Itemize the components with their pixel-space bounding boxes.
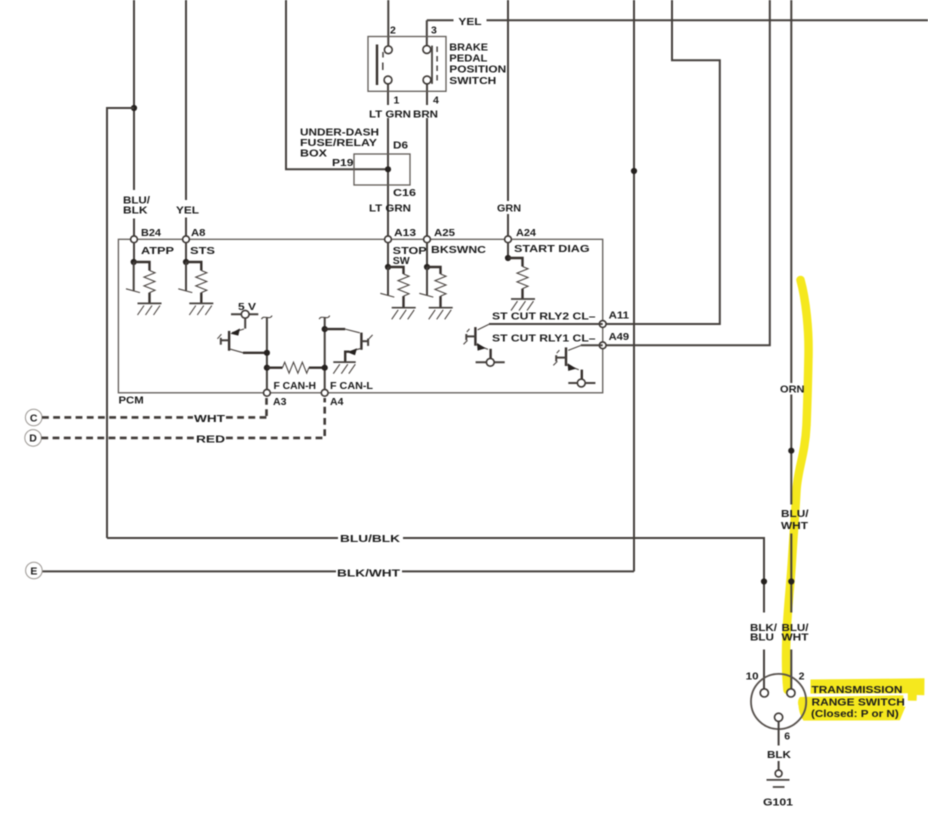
wire BLK from pin 6 (778, 721, 780, 770)
transmission range switch circle (751, 674, 806, 729)
svg-text:YEL: YEL (176, 205, 200, 217)
dashed wire WHT from C to A3 (42, 398, 267, 418)
transistor Q4 (ST CUT RLY1 driver) (553, 346, 582, 380)
junction in under-dash box (385, 166, 391, 172)
wire pin3 brake switch from YEL line (426, 20, 428, 45)
wire pin2 brake switch (387, 0, 389, 46)
switch contact stub pin2 (382, 52, 384, 58)
wire A11 to transistor Q3 (489, 323, 603, 325)
break tilde F CAN-L (319, 316, 330, 320)
pin A25 (424, 236, 431, 243)
ground STOP SW (392, 308, 416, 320)
svg-text:C16: C16 (393, 187, 416, 199)
transistor Q2 (CAN driver low) (325, 329, 373, 362)
switch closed contact right (431, 46, 433, 84)
pin A4 (321, 389, 328, 396)
pin A24 (505, 236, 512, 243)
pin 1 terminal (384, 76, 392, 84)
svg-text:BRN: BRN (413, 109, 438, 121)
svg-text:BLK: BLK (767, 749, 791, 761)
switch mechanical link dash right (436, 47, 438, 85)
svg-text:E: E (30, 565, 37, 577)
wire ORN / BLU-WHT vertical (790, 0, 792, 689)
ground terminal Q4 (568, 379, 595, 387)
svg-text:YEL: YEL (458, 16, 482, 28)
svg-text:SW: SW (393, 255, 410, 267)
svg-text:ATPP: ATPP (141, 245, 174, 257)
pin 6 terminal (775, 713, 783, 721)
resistor CAN termination (267, 362, 325, 373)
resistor STS pull (178, 243, 207, 303)
svg-text:ST CUT RLY2 CL–: ST CUT RLY2 CL– (492, 310, 596, 322)
pin 3 terminal (423, 46, 431, 54)
wire pin1 LT GRN down through P19 to A13 (387, 84, 389, 236)
pin 10 terminal (760, 689, 768, 697)
svg-text:BLK: BLK (123, 205, 148, 217)
F CAN-L internal vertical (324, 318, 326, 390)
pin A11 (599, 321, 606, 328)
wire to A49 from top (603, 0, 770, 345)
svg-text:B24: B24 (141, 227, 161, 239)
svg-text:LT GRN: LT GRN (369, 203, 411, 215)
wire to A11 from top (603, 0, 720, 324)
svg-text:C: C (30, 412, 38, 424)
break tilde F CAN-H (262, 316, 273, 320)
svg-text:BLK/WHT: BLK/WHT (337, 567, 401, 579)
junction node CAN-L resistor (322, 365, 328, 371)
svg-text:GRN: GRN (497, 203, 521, 215)
svg-text:(Closed: P or N): (Closed: P or N) (811, 708, 899, 720)
svg-text:BLU: BLU (750, 631, 774, 643)
svg-text:SWITCH: SWITCH (449, 75, 496, 87)
pin 2 terminal (384, 46, 392, 54)
resistor BKSWNC pull (419, 243, 446, 307)
ground STS (189, 303, 213, 315)
ground BKSWNC (429, 308, 453, 320)
junction node CAN-H resistor (264, 365, 270, 371)
dashed wire RED from D to A4 (41, 398, 324, 438)
svg-text:ORN: ORN (780, 384, 805, 396)
pin A13 (385, 236, 392, 243)
switch mechanical link dash left (382, 63, 384, 71)
switch plunger bar (376, 45, 378, 86)
splice node ORN wire (788, 448, 794, 454)
connector E (26, 562, 43, 579)
pin A3 (264, 389, 271, 396)
svg-text:4: 4 (433, 95, 439, 107)
svg-text:WHT: WHT (782, 631, 810, 643)
svg-text:6: 6 (784, 730, 790, 742)
F CAN-H internal vertical (266, 318, 268, 390)
pin 2 terminal (787, 689, 795, 697)
svg-text:2: 2 (799, 670, 805, 682)
svg-text:START DIAG: START DIAG (514, 243, 590, 255)
svg-text:A11: A11 (609, 309, 630, 321)
svg-text:F CAN-H: F CAN-H (274, 380, 317, 392)
svg-text:PCM: PCM (119, 395, 144, 407)
pin B24 (131, 236, 138, 243)
svg-text:LT GRN: LT GRN (369, 109, 411, 121)
pin 4 terminal (423, 76, 431, 84)
svg-text:A4: A4 (330, 396, 344, 408)
svg-text:P19: P19 (332, 157, 354, 169)
svg-text:POSITION: POSITION (449, 64, 506, 76)
splice node BLK/BLU wire (761, 578, 767, 584)
svg-text:ST CUT RLY1 CL–: ST CUT RLY1 CL– (492, 332, 596, 344)
ground terminal Q3 (476, 358, 505, 366)
connector C (25, 409, 42, 426)
connector D (25, 430, 42, 447)
wire branch left and down to BLU/BLK horizontal (107, 108, 134, 538)
wire BLU/BLK horizontal (107, 538, 764, 689)
svg-text:BLU/: BLU/ (781, 508, 809, 520)
wire A49 to transistor Q4 (581, 344, 603, 346)
svg-text:STS: STS (190, 245, 215, 257)
svg-text:BKSWNC: BKSWNC (431, 244, 486, 256)
splice node ORN wire lower (788, 578, 794, 584)
svg-text:1: 1 (394, 95, 400, 107)
svg-text:A25: A25 (434, 227, 455, 239)
svg-text:A13: A13 (394, 227, 416, 239)
svg-text:F CAN-L: F CAN-L (330, 380, 374, 392)
svg-text:TRANSMISSION: TRANSMISSION (812, 684, 903, 696)
wire BLK/WHT horizontal from E (42, 570, 634, 572)
svg-text:RED: RED (196, 433, 226, 445)
wire GRN vertical to A24 (507, 0, 509, 236)
brake pedal position switch box (368, 37, 446, 92)
svg-text:A8: A8 (191, 227, 206, 239)
ground Q2 (333, 362, 355, 374)
svg-text:10: 10 (746, 670, 759, 682)
wire YEL horizontal top (427, 19, 928, 21)
resistor STOP SW pull (380, 243, 409, 307)
wire pin4 BRN down to A25 (426, 84, 428, 236)
svg-text:WHT: WHT (781, 520, 809, 532)
5V supply terminal (231, 310, 258, 328)
svg-text:BLU/BLK: BLU/BLK (340, 533, 401, 545)
ground G101 (767, 770, 790, 787)
wire BLK/WHT vertical from top (633, 0, 635, 571)
under-dash fuse/relay box (354, 154, 410, 185)
svg-text:A49: A49 (609, 331, 630, 343)
transistor Q1 (CAN driver high) (217, 328, 267, 352)
junction node CAN-H collector (264, 350, 270, 356)
junction node on BLU/BLK wire (131, 105, 137, 111)
wire LT GRN vertical from top to P19 junction (286, 0, 388, 169)
PCM box (118, 239, 602, 392)
svg-text:2: 2 (390, 25, 396, 37)
highlighter vertical stroke along ORN/BLU-WHT wire (786, 280, 809, 690)
ground ATPP (138, 303, 162, 315)
highlighter stroke over RANGE SWITCH and (Closed: P or N) (798, 695, 906, 720)
junction node CAN-L collector (322, 326, 328, 332)
svg-text:WHT: WHT (194, 413, 226, 425)
resistor ATPP pull (126, 243, 155, 303)
resistor START DIAG pull (505, 243, 528, 299)
pin A49 (599, 342, 606, 349)
svg-text:3: 3 (431, 25, 437, 37)
svg-text:D6: D6 (393, 140, 408, 152)
highlighter stroke over TRANSMISSION (811, 678, 925, 701)
svg-text:BOX: BOX (300, 148, 327, 160)
wire BLU/BLK vertical from top to B24 (133, 0, 135, 236)
svg-text:G101: G101 (763, 796, 793, 808)
svg-text:A3: A3 (273, 396, 287, 408)
wire YEL vertical from top to A8 (185, 0, 187, 236)
svg-text:RANGE SWITCH: RANGE SWITCH (812, 696, 905, 708)
splice node on BLK/WHT vertical (631, 168, 637, 174)
transistor Q3 (ST CUT RLY2 driver) (464, 324, 491, 358)
svg-text:D: D (29, 433, 37, 445)
pin A8 (183, 236, 190, 243)
ground START DIAG (511, 299, 535, 311)
svg-text:A24: A24 (516, 227, 536, 239)
